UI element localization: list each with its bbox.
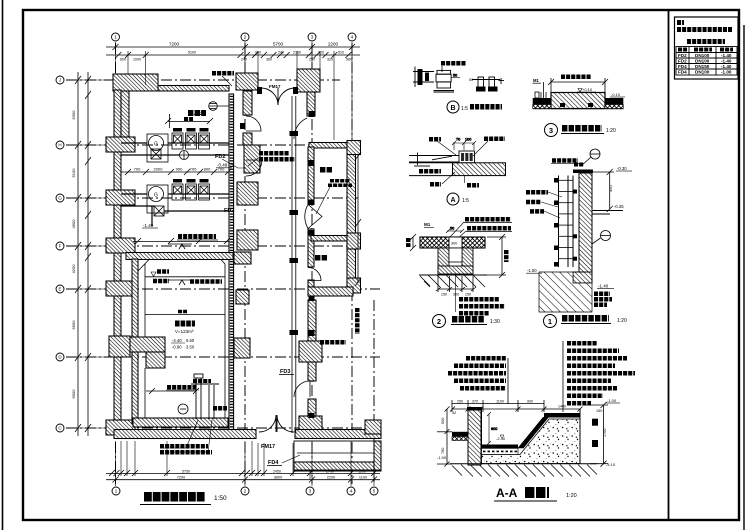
detail 3 left witness (542, 82, 544, 98)
svg-text:560: 560 (346, 58, 352, 62)
svg-text:1:20: 1:20 (606, 128, 616, 134)
valve labels row2 (173, 179, 209, 183)
svg-text:500: 500 (441, 418, 445, 424)
detail 3 M1 underline (533, 82, 542, 84)
detail 1 right dim (593, 169, 614, 212)
svg-text:900: 900 (527, 400, 533, 404)
wall right stub axis H (347, 141, 361, 155)
check valve circle row1 (180, 151, 189, 160)
svg-text:6300: 6300 (71, 110, 76, 120)
AA right dim texts (596, 409, 607, 437)
svg-text:5.50: 5.50 (186, 338, 195, 343)
detail A label bubble (447, 193, 459, 205)
svg-text:700: 700 (190, 167, 197, 172)
detail 2 right dim text (504, 250, 509, 262)
tank water level line 1 (145, 276, 225, 278)
FD4 underline (267, 465, 282, 467)
svg-text:-1.00: -1.00 (607, 398, 617, 403)
detail 3 title 水泵基础剖面 (562, 125, 602, 132)
pilaster central b (237, 182, 258, 205)
svg-text:5100: 5100 (71, 168, 76, 178)
svg-text:FD4: FD4 (678, 64, 687, 69)
detail 3 ground right crosshatch (605, 105, 623, 109)
detail 2 title 排水沟剖面 (452, 316, 485, 323)
detail 2 bottom text 1 (459, 297, 499, 302)
wall horizontal upper-right (309, 143, 356, 149)
vestibule jamb mark (240, 123, 245, 129)
AA left note lines (448, 358, 506, 388)
detail A slab bottom line (409, 175, 453, 177)
label 300 wide drain right (355, 308, 360, 334)
svg-text:2450: 2450 (273, 470, 281, 474)
leader text 沟底标高 (259, 157, 295, 162)
detail A left leader text 2 (430, 182, 441, 187)
detail 3 ground left crosshatch (533, 105, 551, 109)
svg-text:FD2: FD2 (224, 208, 234, 214)
left dimension col 1 (75, 72, 81, 436)
detail 2 ground hatch below (420, 275, 485, 287)
label 水泵基础大样 underlined (178, 234, 216, 239)
svg-text:240: 240 (278, 51, 284, 55)
tank level text 2 (153, 279, 169, 284)
detail 2 top leader text 2 (467, 226, 511, 231)
svg-text:900: 900 (491, 427, 497, 431)
pilaster right-rooms a (299, 341, 322, 362)
svg-text:DN150: DN150 (695, 64, 710, 69)
scan left edge line (2, 0, 4, 530)
leader line room1 (316, 187, 330, 214)
section marker A lower (168, 280, 192, 285)
tank leader text A (190, 279, 222, 284)
detail B main fitting (434, 70, 455, 92)
AA left dim col (437, 407, 452, 467)
svg-text:150: 150 (441, 293, 447, 297)
svg-text:42: 42 (452, 411, 456, 415)
pilaster central axis D (234, 338, 250, 358)
small x-square P2 (154, 206, 164, 216)
wall top-right block B (297, 69, 320, 92)
AA left wall cap (467, 407, 482, 411)
svg-text:-4.10: -4.10 (606, 462, 616, 467)
svg-text:5700: 5700 (273, 42, 284, 47)
svg-text:1700: 1700 (603, 429, 607, 437)
svg-text:-1.40: -1.40 (598, 284, 609, 289)
svg-text:2000: 2000 (154, 167, 164, 172)
AA plateau band (544, 413, 580, 418)
wall right upper vertical (307, 92, 315, 116)
pump unit P2 outline (147, 185, 168, 213)
door room2 arc (308, 268, 321, 281)
AA pit elevation mark (500, 435, 504, 439)
detail A anchor block speckle (461, 153, 473, 161)
svg-text:300: 300 (451, 242, 457, 246)
tank mid label (178, 310, 187, 314)
detail 1 bottom elevation underline (597, 288, 614, 290)
detail 3 ground right black strip (605, 98, 623, 105)
plan title 给水泵房平面图 (144, 492, 205, 502)
leader text 给水泵房排水沟 (259, 151, 289, 156)
svg-text:-0.90: -0.90 (172, 345, 182, 350)
detail 1 right slab line (592, 211, 623, 215)
svg-text:950: 950 (176, 167, 183, 172)
tank elevation underline (171, 342, 185, 344)
tank level text 1 (157, 269, 169, 274)
svg-text:1:5: 1:5 (461, 106, 468, 112)
sump leader lines (162, 420, 212, 452)
detail 3 dim label (561, 74, 591, 79)
detail 1 right elevation top underline (616, 170, 632, 172)
plan title underline (140, 504, 211, 506)
svg-text:-1.40: -1.40 (143, 223, 154, 228)
wall bottom-right ext bottom (294, 462, 374, 471)
door FM17 top jamb marks (257, 87, 298, 94)
svg-text:FM17: FM17 (261, 444, 275, 450)
wall left vertical (114, 90, 121, 433)
AA inner pit dims (487, 412, 497, 445)
svg-text:800: 800 (204, 167, 211, 172)
detail B leader line (441, 66, 443, 72)
svg-text:100: 100 (465, 138, 471, 142)
pilaster left G (106, 190, 135, 205)
wall right-rooms vertical seg1 (308, 147, 314, 204)
svg-text:2: 2 (437, 317, 441, 326)
detail 1 ladder rails (559, 176, 574, 268)
detail 1 wall (579, 173, 592, 272)
detail A leaders (442, 172, 465, 184)
svg-text:4200: 4200 (71, 264, 76, 274)
FD2 leader (222, 159, 246, 168)
detail 1 ground region (539, 272, 592, 312)
svg-text:1100: 1100 (358, 470, 366, 474)
label 贮存水池 (175, 321, 195, 327)
svg-text:3.50: 3.50 (186, 345, 195, 350)
detail 1 top circle symbol (581, 149, 600, 166)
svg-text:50: 50 (453, 74, 457, 78)
pilaster left H (106, 137, 135, 152)
detail 2 top leader underline 2 (466, 231, 512, 233)
AA right dim black labels (592, 419, 598, 447)
bottom dim witness lines (116, 441, 375, 486)
dim above valve boxes (165, 114, 213, 128)
svg-text:600: 600 (120, 58, 126, 62)
sump pipe risers (191, 374, 219, 419)
svg-text:3: 3 (549, 126, 553, 135)
svg-text:250: 250 (457, 400, 463, 404)
drain channel double line (292, 96, 296, 433)
valve group row2 box1 (172, 184, 183, 200)
svg-text:300: 300 (453, 293, 459, 297)
svg-text:3600: 3600 (274, 476, 282, 480)
wall right-rooms vertical seg3 (308, 300, 316, 341)
detail 2 bottom leader line (455, 274, 457, 312)
pipe lines row1 (121, 143, 229, 155)
wall top-left corner block (113, 74, 158, 91)
wall left upper thick part (121, 91, 129, 137)
underline -1.40 (142, 227, 158, 229)
wall tank top (126, 253, 233, 260)
svg-text:-1.00: -1.00 (721, 70, 732, 75)
svg-text:5.50: 5.50 (195, 110, 204, 115)
scan right edge line (743, 25, 745, 530)
detail 2 channel inner (449, 248, 462, 262)
detail A anchor block (459, 151, 475, 163)
detail A leader text left (429, 137, 441, 142)
tank inner outline chamfered (138, 260, 225, 419)
svg-text:150: 150 (596, 409, 602, 413)
legend table title (687, 39, 725, 44)
svg-text:A-A: A-A (496, 486, 518, 500)
svg-text:5100: 5100 (188, 51, 196, 55)
svg-text:6600: 6600 (71, 320, 76, 330)
label tank elevations (172, 338, 195, 350)
AA right top elev underline (606, 402, 620, 404)
detail 3 anchor marks (560, 103, 593, 107)
left dimension col 2 (85, 72, 91, 436)
AA pit floor black band (482, 445, 519, 449)
detail B main fitting dim (451, 74, 460, 78)
detail 2 channel right wall (462, 248, 473, 274)
detail 1 rung anchors (554, 178, 577, 267)
detail 1 top small label (574, 163, 584, 167)
svg-text:J: J (59, 78, 61, 83)
svg-text:-1.50: -1.50 (527, 268, 537, 273)
corridor wall black ticks (309, 111, 315, 418)
detail 3 base line (533, 108, 624, 110)
detail A bottom leader text (467, 183, 479, 188)
detail 1 left leader text 3 (530, 209, 544, 214)
label -0.10 top (212, 71, 234, 76)
detail 1 ladder rungs (559, 180, 574, 258)
svg-text:DN100: DN100 (695, 53, 710, 58)
svg-text:320: 320 (327, 58, 333, 62)
pilaster right-rooms b (299, 416, 322, 437)
svg-text:370: 370 (472, 400, 478, 404)
pilaster left E (106, 281, 135, 296)
AA ground hatch bottom (452, 465, 597, 477)
svg-text:360: 360 (266, 58, 272, 62)
detail 2 channel left wall (438, 248, 449, 274)
sump DN label (213, 406, 227, 411)
wall vestibule mid stub (243, 133, 252, 145)
pilaster central tank top (234, 252, 251, 264)
AA right note lines (567, 343, 635, 403)
detail 2 left dim (408, 234, 416, 251)
sump leader text top underlined (167, 385, 197, 390)
AA left dim texts (441, 418, 445, 454)
leader line top (222, 76, 232, 86)
svg-text:-0.10: -0.10 (611, 92, 621, 97)
AA left ledge crosshatch (452, 437, 468, 441)
svg-text:7200: 7200 (169, 42, 180, 47)
detail 2 top slab (420, 237, 485, 248)
svg-text:DN100: DN100 (695, 70, 710, 75)
left dim witness lines (75, 80, 113, 428)
table rows (678, 53, 732, 75)
svg-text:FD2: FD2 (678, 59, 687, 64)
detail 3 top dim (548, 78, 608, 93)
pilaster bottom-right ext (365, 420, 381, 434)
notes and legend box (675, 17, 739, 79)
AA right edge line (579, 409, 581, 464)
sump pipe labels (193, 379, 211, 383)
svg-text:FD4: FD4 (678, 70, 687, 75)
valve group row2 box3 (199, 184, 210, 200)
FD4 leader (282, 455, 300, 463)
tank level mark triangle (151, 272, 156, 277)
svg-text:-0.30: -0.30 (617, 166, 627, 171)
wall right-rooms vertical seg2 (308, 229, 314, 267)
AA title underline (494, 500, 557, 502)
valve group row1 box2 (186, 133, 197, 149)
pilaster central a (244, 145, 260, 173)
label 泵房 lower right room (315, 255, 328, 261)
svg-text:+0.10: +0.10 (582, 87, 593, 92)
detail 3 right elevation underline (610, 96, 625, 98)
section marker A upper (168, 244, 192, 249)
wall right-rooms vertical seg5 (308, 399, 316, 417)
svg-text:-1.40: -1.40 (721, 59, 732, 64)
detail 1 title underline (561, 323, 611, 325)
svg-text:2700: 2700 (326, 470, 334, 474)
valve labels row1 (173, 128, 209, 132)
svg-text:B: B (450, 105, 455, 112)
AA left wall (468, 408, 481, 465)
svg-text:FD2: FD2 (215, 154, 225, 160)
svg-text:5750: 5750 (182, 470, 190, 474)
tank corner step vertical (146, 352, 165, 368)
svg-text:1: 1 (548, 317, 552, 326)
svg-text:1:20: 1:20 (617, 318, 627, 324)
AA right dim col (583, 402, 608, 467)
valve group row1 box3 (199, 133, 210, 149)
sump pump circle (178, 404, 188, 414)
detail B left fitting (413, 67, 434, 88)
svg-text:240: 240 (241, 58, 247, 62)
legend table grid (676, 47, 737, 76)
walls of pump-room plan (106, 69, 381, 471)
note line 1 (677, 27, 732, 32)
detail A leader lines (437, 141, 488, 156)
axis grid dash-dot lines vertical (116, 43, 375, 484)
sump leader text 1 (160, 444, 208, 449)
tank mid line (145, 314, 225, 316)
axis bubbles bottom (112, 487, 378, 495)
wall right-rooms vertical seg2b (308, 280, 314, 288)
door FD3 arc (294, 381, 310, 397)
detail 3 foundation block (551, 93, 605, 109)
AA top dim (450, 400, 583, 412)
detail A leader text right (484, 136, 505, 141)
svg-text:F: F (59, 244, 62, 249)
svg-text:M1: M1 (533, 78, 539, 83)
label underline (177, 239, 218, 241)
wall top-right block A (236, 73, 258, 90)
detail 2 right dim (487, 234, 506, 278)
detail 3 label bubble (545, 124, 558, 137)
top dimension row 2 (106, 52, 360, 58)
wall vestibule upper stub (243, 91, 252, 115)
bottom dimension row 2 (106, 477, 380, 483)
svg-text:70: 70 (456, 138, 460, 142)
bottom dimension row 1 (106, 470, 380, 476)
svg-text:1100: 1100 (496, 400, 504, 404)
sump dim ticks (146, 388, 199, 394)
detail 3 elevation underline (577, 91, 596, 93)
wall right stub axis F (347, 233, 361, 249)
detail 2 top leader text 1 (465, 217, 511, 222)
detail 2 small dim (446, 227, 464, 234)
AA left ledge black strip (452, 432, 468, 437)
detail 1 title 不锈钢爬梯剖面图 (562, 315, 609, 322)
AA pit inner wall line (481, 408, 483, 447)
top dimension row 1 (106, 44, 360, 50)
AA slope band (518, 417, 550, 448)
svg-text:150: 150 (465, 293, 471, 297)
door vestibule arc 1 (246, 116, 261, 131)
svg-text:50: 50 (450, 227, 454, 231)
detail 2 leader lines (450, 222, 466, 240)
detail 1 left leader text 1 (526, 190, 548, 195)
detail 2 M1 tick (424, 227, 434, 229)
svg-text:-1.40: -1.40 (721, 64, 732, 69)
pilaster left C corner (106, 420, 135, 435)
svg-text:FM17: FM17 (269, 84, 281, 89)
sump bottom wall (133, 418, 228, 427)
svg-text:450: 450 (608, 185, 613, 192)
table header cells (678, 48, 687, 52)
FD3 underline (279, 374, 294, 376)
svg-text:700: 700 (134, 167, 141, 172)
AA top dim texts (457, 400, 566, 409)
detail 2 top leader underline 1 (464, 222, 512, 224)
svg-text:G: G (154, 193, 158, 199)
svg-text:G: G (154, 142, 158, 148)
svg-text:1400: 1400 (558, 405, 566, 409)
detail 1 wall step lower (573, 272, 592, 283)
detail A pipe lines (409, 153, 459, 167)
pilaster left F (106, 238, 135, 253)
detail B main fitting leader text (441, 61, 466, 66)
drain channel jamb marks (290, 131, 299, 335)
note text 注: (677, 20, 684, 25)
detail A dim ticks (452, 138, 476, 151)
detail A left leader text 1 (419, 169, 441, 174)
label right room note (320, 340, 346, 345)
svg-text:1000: 1000 (133, 58, 141, 62)
leader text room1 line1 (330, 179, 350, 183)
svg-text:-1.40: -1.40 (721, 53, 732, 58)
svg-text:2200: 2200 (328, 42, 339, 47)
detail 1 lower circle symbol (592, 231, 611, 245)
detail 2 bottom text 3 (459, 311, 489, 316)
detail 1 left leader lines (541, 192, 562, 218)
detail 1 top leader text (552, 158, 578, 163)
valve group row1 box1 (172, 133, 183, 149)
detail 2 ground line (419, 274, 487, 276)
svg-text:-4.40: -4.40 (172, 338, 182, 343)
detail 1 top leader underline (551, 163, 579, 165)
wall bottom left of door (114, 430, 256, 439)
svg-text:M1: M1 (424, 222, 431, 227)
wall top (158, 86, 229, 92)
detail 2 bottom dims (436, 276, 476, 292)
wall right column vertical (347, 143, 356, 290)
svg-text:1:20: 1:20 (566, 493, 577, 499)
AA pit floor underlayer (482, 448, 519, 454)
tank corner step horizontal (130, 337, 165, 352)
detail 3 ground left black strip (533, 98, 551, 105)
svg-text:6900: 6900 (71, 389, 76, 399)
